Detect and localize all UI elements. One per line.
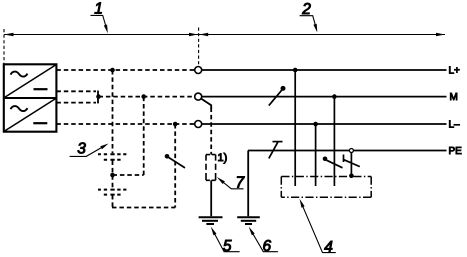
svg-text:5: 5: [223, 238, 232, 255]
svg-text:6: 6: [262, 238, 271, 255]
svg-text:L+: L+: [449, 66, 461, 77]
svg-text:2: 2: [301, 1, 311, 18]
svg-text:3: 3: [77, 140, 86, 157]
svg-text:PE: PE: [449, 146, 463, 157]
svg-text:M: M: [450, 92, 458, 103]
svg-text:7: 7: [235, 175, 245, 192]
svg-text:1): 1): [218, 152, 228, 164]
svg-text:L–: L–: [449, 120, 461, 131]
svg-text:1: 1: [94, 1, 103, 18]
svg-text:4: 4: [324, 239, 333, 256]
